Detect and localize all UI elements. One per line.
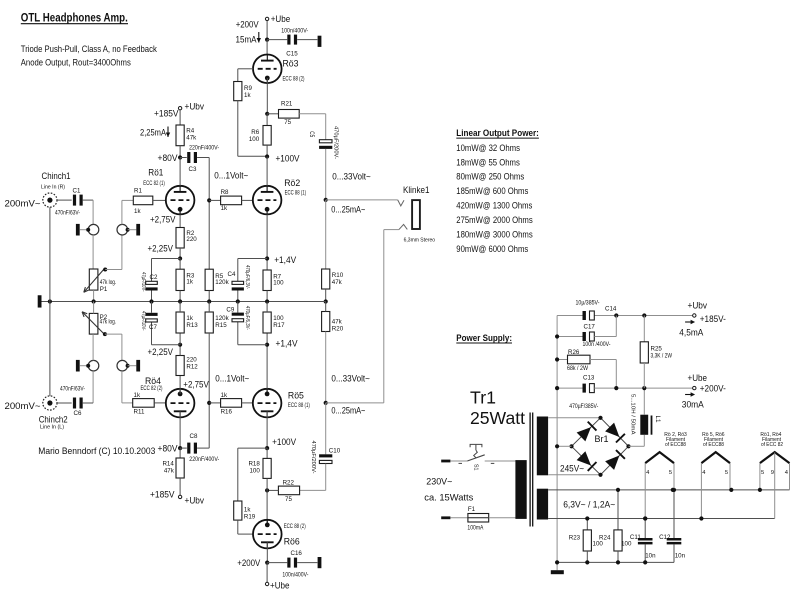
wire R5 to bus: [208, 291, 210, 302]
svg-text:+100V: +100V: [272, 437, 296, 447]
svg-text:Anode Output, Rout=3400Ohms: Anode Output, Rout=3400Ohms: [21, 57, 131, 68]
svg-text:200mV~: 200mV~: [5, 401, 41, 411]
svg-text:47µF/10V-: 47µF/10V-: [140, 311, 146, 331]
resistor R13 1k: [176, 312, 184, 333]
svg-text:1k: 1k: [221, 205, 228, 212]
wire bridge plus to choke: [629, 445, 645, 447]
svg-text:+Ube: +Ube: [271, 14, 291, 24]
wire R12 to +2,25V node lower: [179, 345, 181, 356]
wire node to C7: [152, 344, 181, 346]
transformer Tr1 primary winding: [515, 460, 526, 519]
wire cathode node to R21: [267, 113, 278, 115]
wire C16 to ground bar: [297, 562, 317, 564]
node +2,25V upper: [178, 256, 182, 260]
svg-text:470µF/6,3V-: 470µF/6,3V-: [244, 306, 250, 330]
svg-text:R9: R9: [244, 85, 252, 92]
wire C6 right: [83, 402, 93, 404]
wire node to C3: [180, 157, 187, 159]
shield bar lower-right: [136, 360, 140, 372]
capacitor C5 470uF output: [319, 140, 332, 143]
capacitor C16 100n: [287, 558, 290, 568]
svg-text:S1: S1: [473, 464, 479, 471]
wire node to Rö3 anode: [266, 40, 268, 55]
svg-text:of ECC88: of ECC88: [665, 442, 686, 448]
svg-text:100: 100: [249, 136, 260, 143]
wire R9 to +100V node: [237, 101, 239, 157]
svg-text:4,5mA: 4,5mA: [679, 328, 703, 338]
wire R6 to +100V node: [266, 145, 268, 156]
svg-text:C6: C6: [74, 410, 82, 417]
svg-text:R6: R6: [251, 129, 259, 136]
svg-text:0...1Volt~: 0...1Volt~: [214, 171, 248, 181]
node dots +200V line: [614, 386, 618, 390]
wire C2 to bus: [151, 291, 153, 302]
jack ring contact: [399, 224, 407, 229]
wire Chinch1 to C1: [57, 199, 72, 201]
choke L1: [640, 415, 648, 435]
link circle to bar lower-right: [128, 365, 137, 367]
svg-text:470µF/385V-: 470µF/385V-: [569, 404, 598, 410]
connector circle lower-right: [117, 360, 128, 371]
resistor R16 1k: [221, 399, 242, 408]
wire +80V node lower to Rö4 anode: [179, 411, 181, 448]
current arrow 30mA: [685, 394, 692, 396]
svg-text:R13: R13: [186, 322, 198, 329]
terminal +185V-: [693, 314, 696, 317]
svg-text:R12: R12: [186, 364, 198, 371]
svg-text:2,25mA: 2,25mA: [140, 128, 166, 138]
svg-text:47k: 47k: [332, 279, 343, 286]
wire Rö3 cathode down: [266, 78, 268, 114]
wire node to +Ube terminal lower: [266, 563, 268, 583]
resistor R8 1k: [221, 196, 242, 205]
svg-text:100: 100: [273, 279, 284, 286]
svg-text:10µ/385V-: 10µ/385V-: [576, 300, 600, 306]
wire terminal to switch: [450, 460, 467, 462]
wire +Ube down: [266, 21, 268, 40]
triode Rö5: [253, 389, 282, 418]
svg-text:+Ube: +Ube: [270, 581, 290, 591]
filament connector Rö1 Rö4: [760, 452, 790, 463]
svg-text:C14: C14: [605, 306, 617, 313]
resistor R20 47k: [322, 312, 330, 332]
wire R15 to bus: [208, 302, 210, 313]
svg-text:C4: C4: [228, 271, 236, 278]
svg-text:100mA: 100mA: [467, 525, 484, 532]
link bar to circle upper-left: [80, 229, 89, 231]
current arrow 4,5mA: [685, 321, 692, 323]
svg-text:0...33Volt~: 0...33Volt~: [331, 373, 370, 383]
svg-text:1k: 1k: [134, 208, 141, 215]
svg-text:Power Supply:: Power Supply:: [456, 333, 512, 344]
svg-text:1k: 1k: [221, 392, 228, 399]
svg-text:R11: R11: [134, 409, 145, 416]
svg-text:+2,75V: +2,75V: [183, 379, 209, 389]
svg-text:68k / 2W: 68k / 2W: [567, 366, 588, 372]
bridge diode upper-left: [577, 427, 591, 441]
svg-text:Line In (L): Line In (L): [40, 424, 64, 430]
svg-text:220nF/400V-: 220nF/400V-: [189, 146, 219, 152]
svg-text:R23: R23: [569, 535, 581, 542]
svg-text:R16: R16: [221, 408, 233, 415]
svg-text:Br1: Br1: [595, 434, 609, 444]
wire HV secondary top to bridge: [548, 417, 600, 419]
wire C15 to ground bar: [297, 39, 317, 41]
svg-text:470nF/63V-: 470nF/63V-: [60, 387, 85, 393]
svg-text:75: 75: [285, 496, 292, 503]
resistor R26 68k bleeder: [557, 359, 567, 361]
wire 6,3V top: [548, 489, 789, 491]
potentiometer P1 47k log: [89, 269, 98, 290]
svg-text:+200V: +200V: [236, 20, 259, 30]
wire P1 wiper link: [103, 268, 107, 272]
wire to jack tip: [326, 199, 398, 201]
wire Rö5 cathode to +1,4V node lower: [266, 333, 268, 389]
capacitor C13 470uF: [557, 387, 582, 389]
svg-text:+Ubv: +Ubv: [185, 495, 205, 505]
wire rail to R10: [325, 200, 327, 269]
svg-text:C8: C8: [190, 433, 198, 440]
capacitor C15 100n: [287, 35, 290, 45]
svg-text:180mW@ 3000 Ohms: 180mW@ 3000 Ohms: [456, 229, 533, 240]
svg-text:P1: P1: [100, 286, 108, 293]
svg-text:100: 100: [249, 467, 260, 474]
svg-text:R4: R4: [186, 127, 194, 134]
resistor R17 100: [263, 312, 271, 333]
svg-text:Rö5: Rö5: [288, 390, 304, 400]
svg-text:+2,25V: +2,25V: [148, 244, 174, 254]
wire to R8: [209, 199, 220, 201]
resistor R9 1k: [234, 82, 242, 101]
resistor R25 3,3K: [643, 316, 645, 342]
svg-text:5: 5: [725, 470, 728, 476]
transformer core: [529, 413, 531, 527]
triode Rö2: [253, 186, 282, 215]
bridge rectifier Br1 frame: [572, 418, 629, 475]
capacitor C7 47uF: [145, 313, 157, 316]
shield bar upper-left: [76, 224, 80, 236]
capacitor C17 10uF: [583, 311, 586, 320]
svg-text:0...25mA~: 0...25mA~: [331, 205, 365, 215]
svg-text:ECC 88 (1): ECC 88 (1): [285, 191, 307, 197]
wire cathode node to Rö6: [266, 490, 268, 525]
wire lower rail to C10: [325, 403, 327, 454]
wire fuse to transformer primary: [489, 517, 516, 519]
svg-text:185mW@ 600 Ohms: 185mW@ 600 Ohms: [456, 185, 528, 196]
center bus wire: [42, 301, 326, 303]
svg-text:90mW@ 6000 Ohms: 90mW@ 6000 Ohms: [456, 243, 528, 254]
capacitor C11 10n: [644, 519, 646, 539]
svg-text:R26: R26: [568, 349, 580, 356]
capacitor C14 100n branch: [557, 336, 582, 338]
svg-text:0...33Volt~: 0...33Volt~: [332, 172, 371, 182]
ground symbol PSU: [551, 570, 564, 574]
capacitor C6: [73, 398, 76, 409]
svg-text:Linear Output Power:: Linear Output Power:: [456, 128, 539, 139]
svg-text:R20: R20: [332, 325, 344, 332]
wire bus to P2: [93, 302, 95, 314]
wire bridge minus to rail: [557, 445, 571, 447]
svg-text:470µF/200V-: 470µF/200V-: [332, 126, 338, 159]
potentiometer P2 47k log: [89, 313, 98, 334]
node 0..1Volt upper: [207, 198, 211, 202]
link circle to bar upper-right: [128, 229, 137, 231]
switch S1 contacts: [459, 462, 463, 464]
svg-text:R8: R8: [221, 189, 229, 196]
wire bus to R20: [325, 302, 327, 312]
wire R14 to +Ubv terminal lower: [179, 478, 181, 495]
wire to R16: [209, 402, 220, 404]
svg-text:220: 220: [186, 236, 197, 243]
svg-text:5: 5: [761, 470, 764, 476]
wire R1 to Rö1 grid: [153, 199, 166, 201]
bridge diode upper-right: [605, 423, 619, 437]
node 0..1Volt lower: [207, 401, 211, 405]
svg-text:C13: C13: [583, 374, 595, 381]
svg-text:+100V: +100V: [276, 154, 300, 164]
node output upper: [324, 198, 328, 202]
svg-text:245V~: 245V~: [560, 462, 584, 473]
wire R20 to lower output node: [325, 332, 327, 403]
svg-text:220: 220: [186, 357, 197, 364]
wire C1 to P1 chain: [83, 199, 93, 201]
svg-text:47k: 47k: [164, 467, 175, 474]
wire P2 to circle lower-left: [92, 334, 94, 360]
svg-text:R17: R17: [273, 322, 285, 329]
connector circle lower-left: [88, 360, 99, 371]
capacitor C9 470uF: [232, 313, 244, 316]
DC minus rail: [556, 316, 558, 571]
mains terminal lower: [441, 516, 450, 519]
wire +185V line: [557, 315, 582, 317]
svg-text:+200V-: +200V-: [700, 383, 726, 393]
switch S1 actuator: [474, 450, 478, 458]
wire circle down to R11: [121, 371, 123, 403]
svg-text:C11: C11: [630, 534, 641, 541]
connector Chinch1: [43, 193, 57, 207]
wire +100V node lower to Rö5 anode: [266, 411, 268, 448]
resistor R22 75: [278, 486, 299, 495]
node anode supply Rö3: [265, 38, 269, 42]
wire P1 to bus: [93, 290, 95, 301]
svg-text:+185V-: +185V-: [700, 314, 726, 324]
svg-text:15mA: 15mA: [236, 35, 257, 45]
svg-text:C12: C12: [659, 534, 671, 541]
wire R7 to bus: [266, 291, 268, 302]
capacitor C4 470uF: [232, 281, 244, 284]
resistor R15 120k: [205, 312, 213, 333]
terminal +Ubv lower: [178, 495, 181, 498]
svg-text:Mario Benndorf (C) 10.10.2003: Mario Benndorf (C) 10.10.2003: [38, 445, 155, 456]
switch S1 lever: [467, 455, 484, 461]
svg-text:L1: L1: [654, 416, 661, 424]
wire node to C8: [180, 447, 187, 449]
svg-text:100: 100: [621, 541, 632, 548]
wire Chinch2 to C6: [57, 402, 72, 404]
wire C10 to R22 link: [325, 464, 327, 491]
wire R2 to +2,25V node: [179, 248, 181, 259]
svg-text:10n: 10n: [645, 553, 656, 560]
wire node to C4: [238, 258, 267, 260]
wire node to C16: [267, 562, 287, 564]
wire 6,3V bottom: [548, 518, 775, 520]
shield bar upper-right: [136, 224, 140, 236]
svg-text:Line In (R): Line In (R): [41, 185, 65, 191]
fuse F1 100mA: [468, 514, 489, 523]
svg-text:1k: 1k: [134, 392, 141, 399]
svg-text:C1: C1: [73, 188, 81, 195]
node output lower: [324, 401, 328, 405]
svg-text:+2,75V: +2,75V: [150, 215, 176, 225]
svg-text:Tr1: Tr1: [470, 388, 496, 408]
node +1,4V lower: [265, 343, 269, 347]
svg-text:5...10H / 50mA: 5...10H / 50mA: [630, 394, 636, 435]
svg-text:of ECC88: of ECC88: [703, 442, 724, 448]
resistor R21 75: [279, 110, 300, 119]
svg-text:ECC 82 (1): ECC 82 (1): [143, 181, 165, 187]
svg-text:0...1Volt~: 0...1Volt~: [215, 373, 249, 383]
node +100V lower: [265, 446, 269, 450]
svg-text:C16: C16: [291, 550, 303, 557]
svg-text:+185V: +185V: [154, 109, 179, 119]
svg-text:OTL Headphones Amp.: OTL Headphones Amp.: [21, 11, 128, 25]
svg-text:R15: R15: [215, 322, 227, 329]
svg-text:C2: C2: [150, 274, 158, 281]
wire C8 to rail: [197, 447, 209, 449]
wire switch to transformer primary: [485, 460, 516, 462]
ground bar bus left end: [38, 295, 42, 307]
wire R15 to C8 rail: [208, 333, 210, 448]
svg-text:80mW@ 250 Ohms: 80mW@ 250 Ohms: [456, 171, 524, 182]
wire Rö2 cathode to +1,4V node: [266, 214, 268, 270]
svg-text:47k log.: 47k log.: [100, 319, 117, 326]
wire R3 to bus: [179, 291, 181, 302]
capacitor C10 470uF output: [319, 454, 332, 457]
capacitor C12 10n: [673, 490, 675, 538]
bridge diode lower-left: [577, 451, 591, 465]
node Rö3 cathode: [265, 112, 269, 116]
svg-text:ECC 88 (1): ECC 88 (1): [288, 403, 310, 409]
svg-text:C9: C9: [226, 307, 234, 314]
svg-text:R10: R10: [332, 272, 344, 279]
svg-text:+80V: +80V: [158, 153, 178, 163]
resistor R1 1k: [133, 196, 153, 205]
node anode supply Rö6: [265, 561, 269, 565]
bridge node dots: [598, 416, 602, 420]
svg-text:47k: 47k: [186, 134, 197, 141]
svg-text:C5: C5: [308, 131, 315, 137]
wire R17 to bus: [266, 302, 268, 313]
svg-text:3,3K / 2W: 3,3K / 2W: [651, 354, 673, 360]
wire Rö1 cathode to R2: [179, 214, 181, 227]
svg-text:6,3V~ / 1,2A~: 6,3V~ / 1,2A~: [563, 499, 615, 510]
resistor R24 100: [617, 490, 619, 530]
svg-text:75: 75: [284, 119, 291, 126]
resistor R4 47k: [176, 125, 184, 146]
svg-text:200mV~: 200mV~: [5, 199, 41, 209]
wire node to R18: [266, 448, 268, 458]
svg-text:+1,4V: +1,4V: [276, 339, 298, 349]
triode Rö1: [166, 186, 195, 215]
svg-text:ECC 88 (2): ECC 88 (2): [283, 77, 305, 83]
svg-text:47k log.: 47k log.: [100, 279, 117, 286]
svg-text:220nF/400V-: 220nF/400V-: [189, 457, 219, 463]
wire C7 to bus: [151, 302, 153, 313]
svg-text:100n/400V-: 100n/400V-: [282, 572, 308, 578]
svg-text:+Ubv: +Ubv: [688, 301, 708, 311]
terminal +Ube top: [265, 17, 268, 20]
wire choke to +200V node: [643, 388, 645, 415]
svg-text:120k: 120k: [215, 279, 229, 286]
svg-text:470µF/200V-: 470µF/200V-: [310, 441, 316, 474]
resistor R18 100: [263, 458, 271, 478]
wire +Ubv to R4: [179, 110, 181, 125]
svg-text:+Ubv: +Ubv: [185, 102, 205, 112]
ground bar at C16: [318, 557, 322, 568]
capacitor C2 47uF: [146, 281, 158, 284]
bridge diode lower-right: [605, 456, 619, 470]
filament connector Rö5 Rö6: [701, 452, 730, 463]
wire C5 to jack node: [325, 149, 327, 200]
svg-text:Rö2: Rö2: [284, 178, 300, 188]
svg-text:C7: C7: [149, 324, 157, 331]
heater wire dots: [671, 488, 675, 492]
svg-text:Chinch2: Chinch2: [39, 415, 68, 425]
wire R8 to Rö2 grid: [242, 199, 253, 201]
node bus end: [324, 299, 328, 303]
bus junction dots: [48, 299, 52, 303]
terminal +200V-: [693, 386, 696, 389]
wire P2 wiper link: [103, 332, 107, 336]
wire R18 to cathode node Rö6: [266, 478, 268, 490]
wire node to R13: [179, 333, 181, 345]
triode Rö4: [166, 389, 195, 418]
resistor R6 100: [263, 126, 271, 146]
connector circle upper-left: [88, 224, 99, 235]
node +100V upper: [265, 154, 269, 158]
svg-text:6,3mm Stereo: 6,3mm Stereo: [404, 237, 436, 243]
svg-text:47k: 47k: [332, 318, 343, 325]
resistor R14 47k: [176, 458, 184, 478]
wire C4 to bus: [237, 291, 239, 302]
triode Rö6: [253, 520, 282, 549]
wire C9 to bus: [237, 302, 239, 313]
jack tip contact: [398, 200, 404, 206]
svg-text:470nF/63V-: 470nF/63V-: [55, 210, 80, 216]
svg-text:ECC 82 (2): ECC 82 (2): [141, 386, 163, 392]
wire R10 to bus end: [325, 289, 327, 302]
jack Klinke1 body: [412, 200, 420, 229]
wire R19 to Rö6 grid: [237, 520, 239, 534]
wire R19 to +100V node lower: [237, 448, 239, 501]
svg-text:+1,4V: +1,4V: [274, 255, 296, 265]
svg-text:1k: 1k: [244, 92, 251, 99]
svg-text:0...25mA~: 0...25mA~: [331, 405, 365, 415]
wire R11 to Rö4 grid: [154, 402, 166, 404]
svg-text:Rö6: Rö6: [284, 537, 300, 547]
node +1,4V upper: [265, 256, 269, 260]
svg-text:10mW@ 32 Ohms: 10mW@ 32 Ohms: [456, 142, 520, 153]
wire Rö4 cathode to R12: [179, 376, 181, 394]
svg-text:ca. 15Watts: ca. 15Watts: [424, 491, 473, 502]
wire node to C2: [152, 258, 181, 260]
resistor R19 1k: [234, 501, 242, 520]
svg-text:100n /400V-: 100n /400V-: [583, 342, 611, 348]
svg-text:+200V: +200V: [237, 558, 260, 568]
filament connector Rö2 Rö3: [645, 452, 674, 463]
shield bar lower-left: [76, 360, 80, 372]
node dots +185V line: [614, 313, 618, 317]
